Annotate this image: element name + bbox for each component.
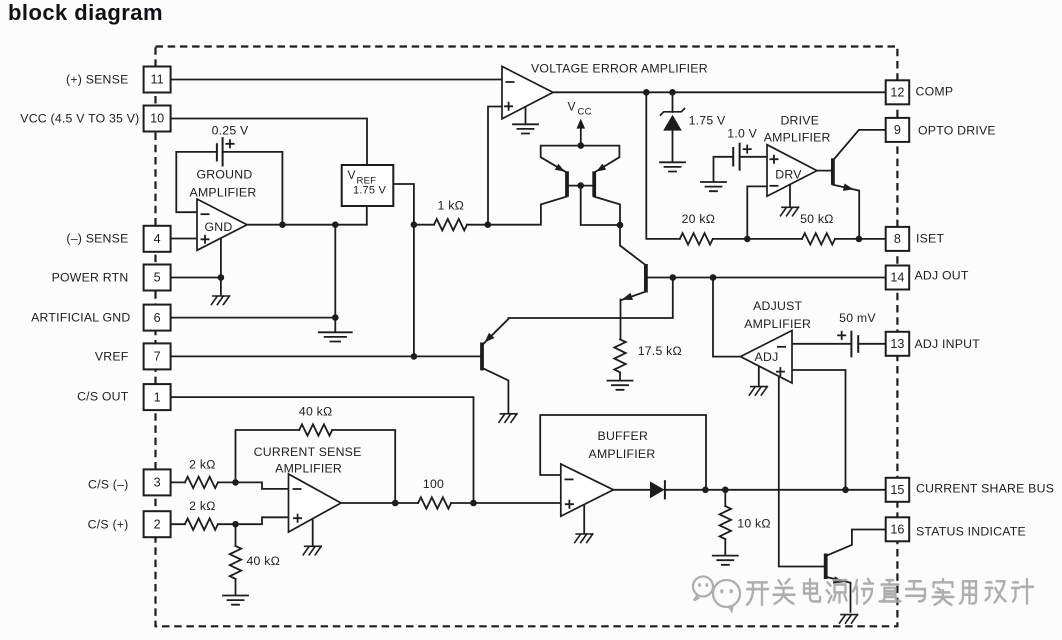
svg-text:V: V xyxy=(568,100,576,114)
svg-text:CC: CC xyxy=(578,107,592,118)
svg-text:17.5 kΩ: 17.5 kΩ xyxy=(638,344,682,358)
svg-text:C/S OUT: C/S OUT xyxy=(77,390,129,404)
svg-text:VREF: VREF xyxy=(95,350,129,364)
svg-text:BUFFER: BUFFER xyxy=(598,429,649,443)
svg-text:CURRENT SENSE: CURRENT SENSE xyxy=(254,445,362,459)
svg-text:0.25 V: 0.25 V xyxy=(212,124,249,138)
svg-text:OPTO DRIVE: OPTO DRIVE xyxy=(918,124,996,138)
svg-text:13: 13 xyxy=(890,337,904,351)
svg-text:VCC (4.5 V TO 35 V): VCC (4.5 V TO 35 V) xyxy=(20,112,139,126)
svg-text:1: 1 xyxy=(154,390,161,404)
svg-text:4: 4 xyxy=(154,232,161,246)
svg-text:DRIVE: DRIVE xyxy=(780,114,819,128)
svg-text:1.0 V: 1.0 V xyxy=(727,127,757,141)
svg-text:40 kΩ: 40 kΩ xyxy=(247,554,281,568)
svg-text:50 mV: 50 mV xyxy=(839,311,876,325)
svg-text:8: 8 xyxy=(894,232,901,246)
svg-text:12: 12 xyxy=(890,86,904,100)
svg-text:2 kΩ: 2 kΩ xyxy=(189,457,215,471)
svg-text:ARTIFICIAL GND: ARTIFICIAL GND xyxy=(31,311,130,325)
svg-text:14: 14 xyxy=(890,271,904,285)
svg-text:GROUND: GROUND xyxy=(197,168,253,182)
svg-text:GND: GND xyxy=(205,220,233,234)
svg-text:1 kΩ: 1 kΩ xyxy=(438,199,464,213)
svg-text:POWER RTN: POWER RTN xyxy=(52,271,129,285)
svg-text:ADJ OUT: ADJ OUT xyxy=(915,269,969,283)
svg-text:C/S (+): C/S (+) xyxy=(88,517,129,531)
svg-text:VOLTAGE ERROR AMPLIFIER: VOLTAGE ERROR AMPLIFIER xyxy=(531,62,708,76)
svg-text:20 kΩ: 20 kΩ xyxy=(682,212,716,226)
svg-text:2: 2 xyxy=(154,517,161,531)
svg-text:AMPLIFIER: AMPLIFIER xyxy=(275,462,342,476)
svg-text:AMPLIFIER: AMPLIFIER xyxy=(764,131,831,145)
svg-text:ADJ: ADJ xyxy=(755,350,779,364)
svg-text:CURRENT SHARE BUS: CURRENT SHARE BUS xyxy=(916,482,1054,496)
svg-text:3: 3 xyxy=(154,476,161,490)
svg-text:C/S (–): C/S (–) xyxy=(88,477,128,491)
svg-text:11: 11 xyxy=(151,73,164,87)
svg-text:AMPLIFIER: AMPLIFIER xyxy=(589,447,656,461)
svg-text:ISET: ISET xyxy=(916,232,944,246)
svg-text:15: 15 xyxy=(890,483,904,497)
svg-text:16: 16 xyxy=(890,523,904,537)
svg-text:COMP: COMP xyxy=(916,85,954,99)
svg-text:50 kΩ: 50 kΩ xyxy=(800,212,834,226)
svg-text:100: 100 xyxy=(423,477,444,491)
svg-text:(+) SENSE: (+) SENSE xyxy=(66,73,128,87)
svg-text:10 kΩ: 10 kΩ xyxy=(737,517,771,531)
svg-text:1.75 V: 1.75 V xyxy=(689,114,726,128)
svg-text:REF: REF xyxy=(357,176,377,187)
svg-text:STATUS INDICATE: STATUS INDICATE xyxy=(916,525,1026,539)
svg-text:2 kΩ: 2 kΩ xyxy=(189,499,215,513)
svg-text:ADJUST: ADJUST xyxy=(753,299,802,313)
svg-text:ADJ INPUT: ADJ INPUT xyxy=(915,337,981,351)
svg-text:AMPLIFIER: AMPLIFIER xyxy=(190,186,257,200)
svg-text:9: 9 xyxy=(894,123,901,137)
svg-text:AMPLIFIER: AMPLIFIER xyxy=(744,317,811,331)
svg-text:DRV: DRV xyxy=(775,168,802,182)
svg-text:(–) SENSE: (–) SENSE xyxy=(66,232,128,246)
svg-text:40 kΩ: 40 kΩ xyxy=(299,405,333,419)
svg-text:7: 7 xyxy=(154,350,161,364)
svg-text:10: 10 xyxy=(150,112,164,126)
svg-text:block diagram: block diagram xyxy=(8,0,163,25)
svg-text:V: V xyxy=(348,168,356,182)
svg-text:5: 5 xyxy=(154,271,161,285)
svg-text:6: 6 xyxy=(154,311,161,325)
